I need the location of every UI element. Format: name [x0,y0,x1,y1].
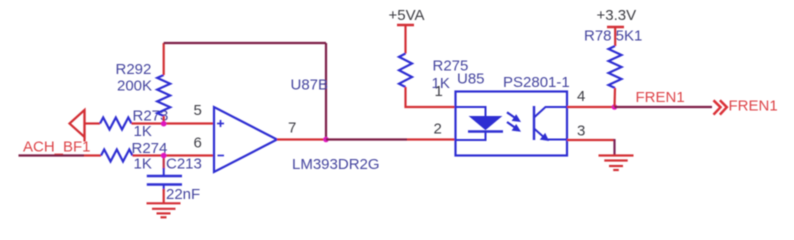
junction node C213/pin6 [161,153,167,159]
wire R273 to op-amp pin5 [132,122,215,124]
svg-text:22nF: 22nF [166,186,200,203]
wire R275 to opto pin1 [406,87,456,107]
op-amp U87B [214,77,380,174]
wire port to R273 [85,122,101,124]
svg-text:2: 2 [434,121,442,138]
ground below C213 [147,203,181,217]
off-sheet connector FREN1 [714,98,778,115]
wire R274 to op-amp pin6 [133,154,215,156]
port connector ACH_BF1 [70,110,85,142]
wire opto pin4 to junction [567,106,615,108]
wire FREN1 (dark segment) [615,106,713,108]
resistor R274 [101,140,167,173]
pin number 1 [435,83,443,100]
svg-text:6: 6 [194,135,202,152]
resistor R78 [584,28,642,89]
junction node R292/pin5 [161,121,167,127]
svg-text:FREN1: FREN1 [729,98,778,115]
svg-text:1K: 1K [134,123,152,140]
svg-text:R292: R292 [116,61,152,78]
svg-text:7: 7 [288,120,296,137]
wire C213 to ground [163,189,165,203]
capacitor C213 [147,156,202,204]
net label ACH_BF1 [23,139,91,156]
net label FREN1 [636,89,685,106]
junction node output/feedback [323,137,329,143]
pin number 3 [577,123,585,140]
resistor R273 [100,108,168,141]
resistor R275 [399,54,468,93]
wire output to optocoupler pin2 [407,138,456,140]
svg-text:ACH_BF1: ACH_BF1 [23,139,91,156]
junction node R78/FREN1 [612,104,618,110]
pin number 6 [194,135,202,152]
light arrows [507,112,521,131]
ground below opto [599,156,634,171]
wire op-amp output to junction [277,138,326,140]
LED inside U85 [456,107,504,140]
power +5VA [389,7,425,54]
wire output to optocoupler (dark segment) [326,138,407,140]
wire R292 bottom lead [163,116,165,124]
pin number 4 [577,88,585,105]
phototransistor inside U85 [534,106,567,141]
pin number 7 [288,120,296,137]
wire feedback top horizontal [164,42,326,44]
svg-text:FREN1: FREN1 [636,89,685,106]
pin number 2 [434,121,442,138]
svg-text:5: 5 [194,102,202,119]
svg-text:U87B: U87B [291,77,329,94]
wire feedback right vertical [325,43,327,140]
svg-text:U85: U85 [457,71,485,88]
svg-text:+5VA: +5VA [389,7,425,24]
svg-text:LM393DR2G: LM393DR2G [292,156,380,173]
wire R78 bottom lead [613,88,616,107]
wire ACH_BF1 to R274 [84,154,101,156]
svg-text:4: 4 [577,88,585,105]
svg-text:PS2801-1: PS2801-1 [503,74,570,91]
resistor R292 [116,61,171,116]
optocoupler U85 PS2801-1 [456,71,570,156]
pin number 5 [194,102,202,119]
svg-text:1K: 1K [134,156,152,173]
wire R292 top lead [163,43,165,75]
svg-text:+3.3V: +3.3V [597,7,637,24]
svg-text:1: 1 [435,83,443,100]
svg-text:C213: C213 [166,156,202,173]
power +3.3V [597,7,637,46]
svg-text:R78 5K1: R78 5K1 [584,28,642,45]
wire opto pin3 to ground [567,139,615,156]
wire ACH_BF1 net segment (dark) [19,154,85,156]
svg-text:200K: 200K [117,78,152,95]
svg-text:3: 3 [577,123,585,140]
